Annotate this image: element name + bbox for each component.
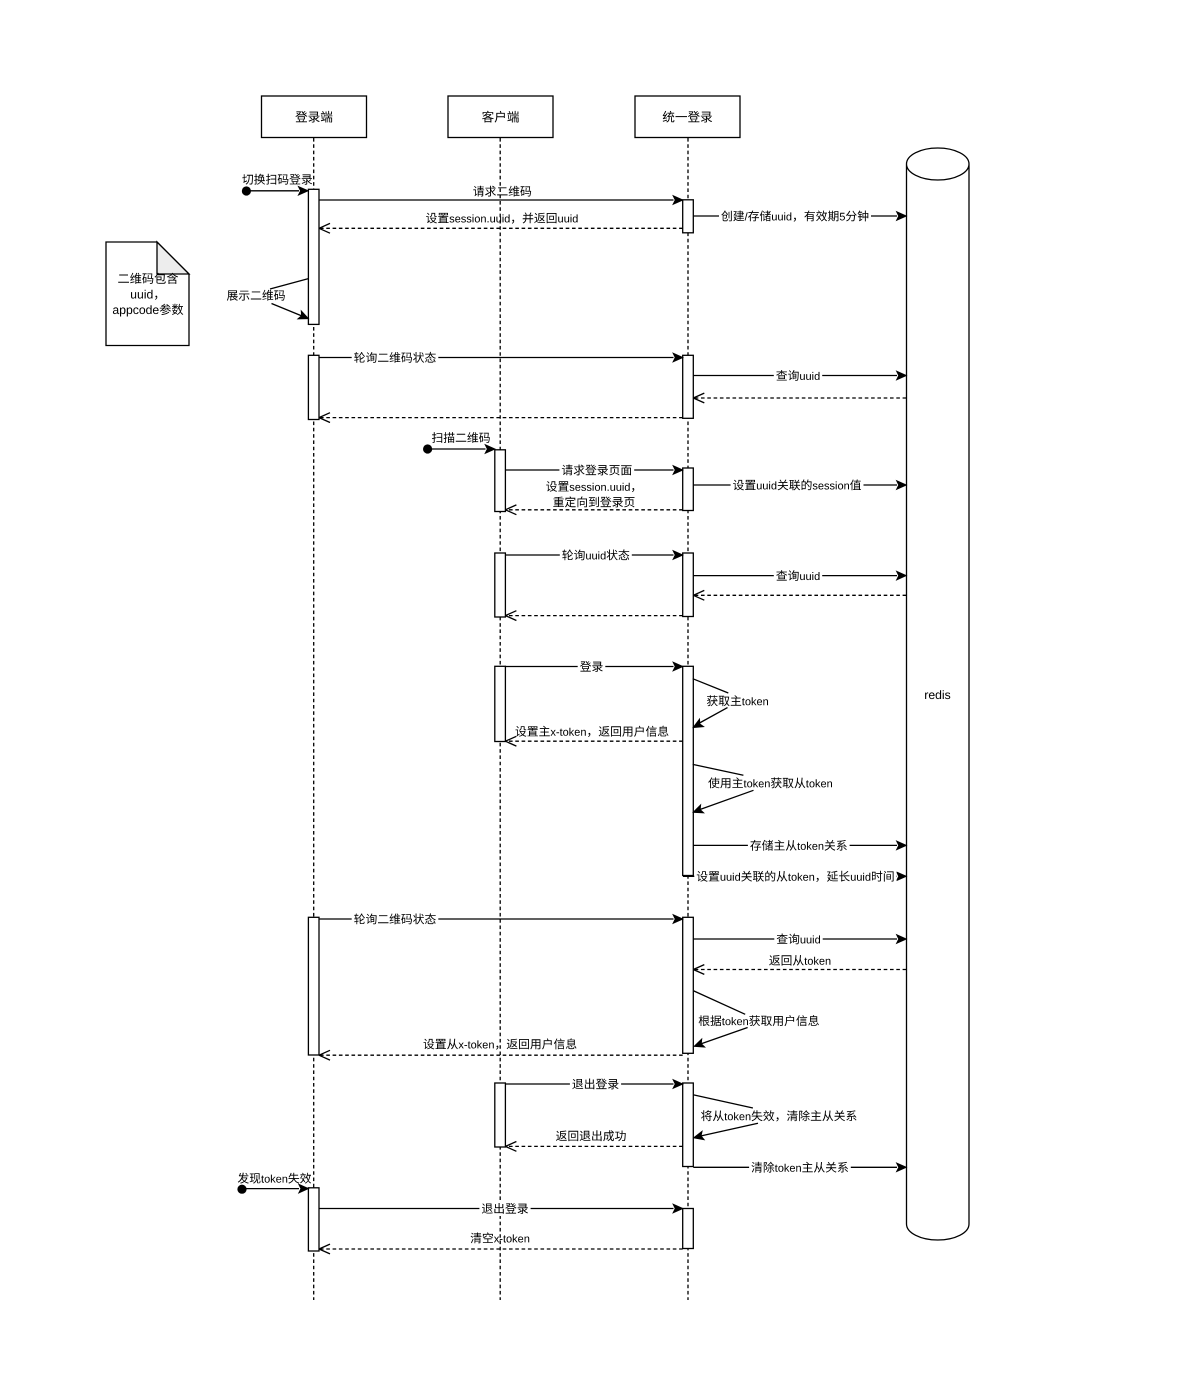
message 存储主从token关系 (693, 838, 906, 853)
return to 登录端 1 (319, 413, 683, 423)
found message 切换扫码登录 (242, 174, 312, 196)
activation 统一登录 8 (683, 1209, 694, 1249)
activation 登录端 2 (308, 355, 319, 419)
return 清空x-token (319, 1232, 683, 1254)
return 设置session.uuid，重定向到登录页 (505, 481, 682, 515)
message 设置uuid关联的从token，延长uuid时间 (683, 869, 906, 884)
self message 将从token失效，清除主从关系 (694, 1095, 857, 1140)
lifeline 统一登录 (687, 138, 689, 1300)
actor box 客户端 (448, 96, 553, 138)
message 请求二维码 (319, 186, 683, 204)
return 返回退出成功 (505, 1130, 682, 1151)
return 设置主x-token，返回用户信息 (505, 726, 682, 746)
lifeline 客户端 (499, 138, 501, 1300)
message 清除token主从关系 (693, 1160, 906, 1175)
lifeline 登录端 (313, 138, 315, 1300)
message 登录 (505, 659, 682, 674)
activation 客户端 2 (495, 553, 506, 617)
activation 客户端 1 (495, 450, 506, 512)
activation 统一登录 5 (683, 666, 694, 875)
activation 统一登录 3 (683, 468, 694, 511)
self message 使用主token获取从token (693, 764, 832, 812)
activation 统一登录 1 (683, 200, 694, 233)
found message 扫描二维码 (423, 432, 495, 454)
activation 登录端 3 (308, 917, 319, 1055)
self message 根据token获取用户信息 (694, 991, 819, 1047)
activation 登录端 4 (308, 1188, 319, 1251)
message 退出登录 2 (319, 1201, 683, 1216)
return 设置从x-token，返回用户信息 (319, 1038, 683, 1060)
message 请求登录页面 (505, 463, 682, 478)
message 轮询二维码状态 1 (319, 350, 683, 365)
message 创建/存储uuid，有效期5分钟 (693, 209, 906, 224)
message 退出登录 1 (505, 1077, 682, 1092)
return 返回从token (693, 955, 906, 974)
message 轮询二维码状态 2 (319, 912, 683, 927)
return from redis 1 (693, 393, 906, 403)
note 二维码包含uuid,appcode参数 (106, 242, 189, 346)
activation 统一登录 2 (683, 355, 694, 418)
self message 展示二维码 (227, 279, 309, 319)
return from redis 2 (693, 590, 906, 600)
return to 客户端 2 (505, 611, 682, 621)
message 轮询uuid状态 (505, 548, 682, 563)
database cylinder redis (907, 148, 970, 1240)
message 查询uuid 1 (693, 368, 906, 383)
activation 统一登录 4 (683, 553, 694, 617)
activation 登录端 1 (308, 189, 319, 324)
actor box 统一登录 (635, 96, 740, 138)
message 设置uuid关联的session值 (693, 478, 906, 493)
message 查询uuid 3 (693, 932, 906, 947)
actor box 登录端 (262, 96, 367, 138)
found message 发现token失效 (237, 1173, 311, 1194)
self message 获取主token (693, 679, 768, 728)
message 查询uuid 2 (693, 568, 906, 583)
activation 客户端 3 (495, 666, 506, 741)
activation 客户端 4 (495, 1083, 506, 1147)
activation 统一登录 6 (683, 917, 694, 1053)
activation 统一登录 7 (683, 1083, 694, 1167)
return 设置session.uuid，并返回uuid (319, 213, 683, 234)
